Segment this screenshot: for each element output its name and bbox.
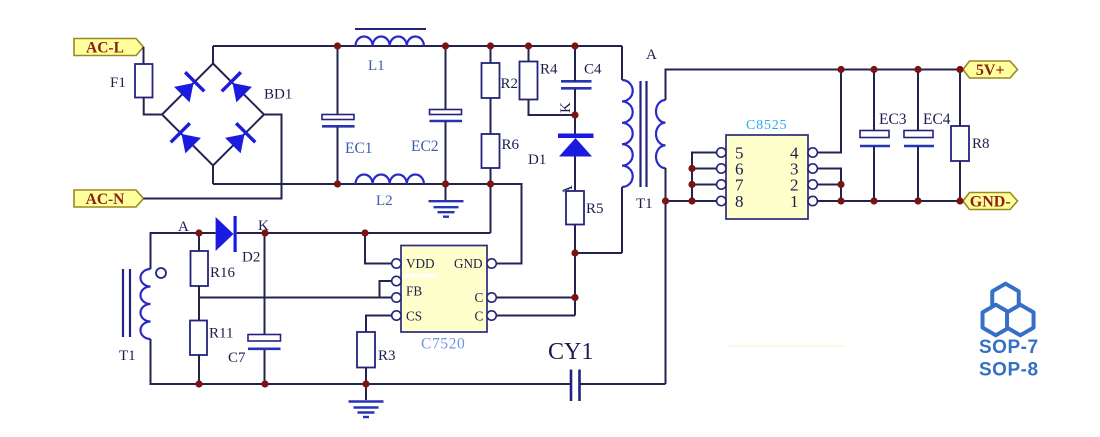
inductor L2 (356, 174, 424, 184)
wire R11 bottom (198, 355, 200, 384)
capacitor EC4 (904, 131, 933, 138)
wire EC4 (917, 70, 919, 202)
diode D2 (216, 217, 234, 251)
svg-text:R5: R5 (586, 201, 604, 217)
svg-text:GND: GND (454, 256, 483, 271)
svg-text:5V+: 5V+ (976, 62, 1005, 79)
svg-text:R6: R6 (502, 137, 520, 153)
svg-text:SOP-8: SOP-8 (979, 360, 1039, 381)
svg-text:FB: FB (406, 284, 422, 299)
svg-text:D2: D2 (242, 250, 260, 266)
wire R8 (959, 70, 961, 202)
node junction 4 (525, 42, 532, 49)
logo hexagon top (992, 284, 1018, 315)
pin C upper circle (487, 293, 496, 302)
node junction 21 (688, 197, 695, 204)
node junction 28 (870, 197, 877, 204)
wire R16 to R11 (198, 286, 200, 321)
svg-text:T1: T1 (119, 348, 136, 364)
svg-text:SOP-7: SOP-7 (979, 337, 1039, 358)
pin 3 circle (808, 164, 817, 173)
wire R16 top (198, 233, 200, 251)
svg-text:C7: C7 (228, 350, 246, 366)
svg-text:R8: R8 (972, 136, 990, 152)
wire VDD pin (365, 233, 392, 264)
fuse F1 (135, 64, 153, 98)
node junction 3 (487, 42, 494, 49)
svg-text:GND-: GND- (970, 194, 1011, 211)
node junction 7 (442, 180, 449, 187)
pin CS circle (392, 311, 401, 320)
svg-text:C7520: C7520 (421, 336, 465, 353)
wire pins 5-7 tie (692, 153, 717, 202)
node junction 30 (956, 197, 963, 204)
pin VDD circle (392, 259, 401, 268)
pin GND circle (487, 259, 496, 268)
node junction 15 (195, 380, 202, 387)
capacitor C7 (248, 335, 281, 342)
power flag GND- (963, 193, 1018, 210)
pin 6 circle (717, 164, 726, 173)
op-amp U2 C8525 body (726, 135, 808, 219)
svg-text:VDD: VDD (406, 256, 435, 271)
ground EC2 (429, 200, 464, 202)
node junction 29 (914, 197, 921, 204)
wire C7 (264, 233, 266, 384)
wire bridge bottom to DC- rail (212, 166, 214, 185)
node junction 6 (334, 180, 341, 187)
wire AC-L to F1 (143, 47, 145, 64)
wire node K line (237, 232, 491, 234)
svg-text:R11: R11 (209, 326, 233, 342)
node junction 19 (688, 165, 695, 172)
bridge diode lower-left (170, 122, 203, 155)
node junction 18 (662, 197, 669, 204)
resistor R5 (566, 191, 584, 225)
wire snubber return to primary (575, 187, 622, 253)
node junction 17 (362, 380, 369, 387)
wire aux bottom rail (151, 339, 571, 384)
inductor L1 (356, 36, 424, 46)
svg-text:EC2: EC2 (411, 138, 439, 155)
wire output ground rail (817, 200, 963, 202)
svg-text:R16: R16 (210, 265, 236, 281)
svg-text:1: 1 (790, 192, 799, 211)
wire bridge top to DC+ rail (212, 46, 214, 64)
node junction 5 (571, 42, 578, 49)
wire pin 3 and pin 2 tie (817, 169, 841, 202)
transformer T1 aux winding (141, 269, 151, 339)
node junction 27 (837, 197, 844, 204)
svg-text:C: C (475, 290, 484, 305)
wire D1 to R5 (574, 157, 576, 192)
pin 8 circle (717, 196, 726, 205)
op-amp U1 C7520 body (401, 246, 487, 333)
bridge diode upper-right (221, 71, 254, 104)
pin 2r circle (808, 180, 817, 189)
pin FB circle (392, 293, 401, 302)
svg-text:C4: C4 (584, 62, 602, 78)
svg-text:8: 8 (735, 192, 744, 211)
svg-text:R2: R2 (501, 76, 519, 92)
node junction 22 (837, 66, 844, 73)
logo hexagon bottom-left (983, 305, 1009, 336)
wire pin2 hook to FB (380, 281, 392, 298)
svg-text:K: K (558, 102, 574, 113)
svg-text:CS: CS (406, 309, 422, 324)
power flag AC-L (74, 39, 144, 56)
transformer T1 aux core (122, 269, 124, 337)
capacitor CY1 (570, 370, 573, 402)
svg-text:R3: R3 (378, 348, 396, 364)
pin 2 circle (392, 276, 401, 285)
resistor R3 (357, 332, 375, 368)
resistor R6 (482, 134, 500, 168)
wire FB to divider (199, 297, 392, 299)
wire DC+ rail (213, 45, 622, 47)
node junction 25 (956, 66, 963, 73)
wire pin 8 to secondary ground (666, 200, 717, 202)
svg-text:D1: D1 (528, 152, 546, 168)
svg-text:L1: L1 (368, 58, 385, 74)
node junction 14 (361, 229, 368, 236)
node junction 2 (442, 42, 449, 49)
pin 5 circle (717, 148, 726, 157)
svg-text:BD1: BD1 (264, 87, 292, 103)
transformer T1 core (639, 81, 641, 187)
svg-text:F1: F1 (110, 75, 126, 91)
wire aux top to node A (151, 233, 200, 269)
bridge diode upper-left (172, 71, 205, 104)
svg-text:A: A (646, 47, 657, 63)
wire R4 (529, 46, 576, 115)
pin C lower circle (487, 311, 496, 320)
capacitor EC1 (322, 115, 354, 120)
wire R5 bottom to IC C pins (574, 225, 576, 316)
phase mark O (156, 268, 166, 278)
resistor R2 (482, 63, 500, 98)
ground R3 (349, 400, 384, 402)
svg-text:C: C (475, 309, 484, 324)
node junction 26 (837, 181, 844, 188)
inductor L1 core bar (355, 28, 426, 30)
wire secondary top to 5V rail (666, 70, 964, 101)
node junction 12 (195, 229, 202, 236)
bridge diode lower-right (223, 122, 256, 155)
pin 4 circle (808, 148, 817, 157)
wire EC1 (337, 46, 339, 184)
wire C4 top (574, 46, 576, 134)
bridge rectifier BD1 outline (162, 64, 264, 166)
resistor R11 (190, 321, 207, 356)
svg-text:T1: T1 (636, 196, 653, 212)
svg-text:R4: R4 (540, 62, 558, 78)
wire secondary bottom (665, 168, 667, 384)
resistor R8 (951, 126, 969, 161)
svg-text:AC-N: AC-N (86, 191, 125, 208)
svg-text:A: A (178, 219, 189, 235)
wire pin 4 to 5V rail (817, 70, 841, 153)
node junction 10 (571, 249, 578, 256)
node junction 9 (571, 111, 578, 118)
svg-text:EC1: EC1 (345, 140, 373, 157)
white mark inside C7520 (404, 274, 435, 277)
capacitor EC2 (430, 110, 462, 115)
svg-text:EC3: EC3 (879, 111, 907, 128)
wire node A to diode D2 (199, 232, 216, 234)
wire C pins to snubber line (496, 298, 575, 316)
transformer T1 secondary winding (656, 100, 665, 168)
capacitor C4 (561, 80, 592, 83)
node junction 11 (571, 294, 578, 301)
wire EC3 (873, 70, 875, 202)
wire DC- rail (213, 184, 522, 264)
power flag AC-N (74, 190, 144, 207)
wire R2 (490, 46, 492, 134)
faint mark (728, 345, 844, 347)
wire F1 to bridge left vertex (144, 98, 162, 115)
wire AC-N to bridge right vertex (144, 115, 282, 199)
wire EC2 (445, 46, 447, 200)
transformer T1 primary winding (622, 80, 633, 187)
wire R3 bottom (365, 368, 367, 401)
diode D1 (558, 134, 594, 139)
wire primary top (621, 46, 623, 80)
capacitor EC3 (860, 131, 889, 138)
svg-text:EC4: EC4 (923, 111, 951, 128)
node junction 23 (870, 66, 877, 73)
node junction 1 (334, 42, 341, 49)
power flag 5V+ (963, 61, 1018, 78)
svg-text:C8525: C8525 (746, 118, 787, 133)
node junction 24 (914, 66, 921, 73)
node junction 13 (261, 229, 268, 236)
svg-text:L2: L2 (376, 193, 393, 209)
pin 7 circle (717, 180, 726, 189)
logo hexagon bottom-right (1007, 305, 1033, 336)
node junction 16 (261, 380, 268, 387)
resistor R16 (191, 251, 209, 286)
svg-text:CY1: CY1 (548, 339, 593, 365)
pin 1 circle (808, 196, 817, 205)
wire CY1 right to secondary ground (580, 383, 666, 385)
wire R6 bottom to VDD line (490, 168, 492, 233)
svg-text:AC-L: AC-L (86, 40, 124, 57)
node junction 8 (487, 180, 494, 187)
wire CS to R3 (366, 316, 392, 333)
node junction 20 (688, 181, 695, 188)
resistor R4 (520, 62, 538, 100)
